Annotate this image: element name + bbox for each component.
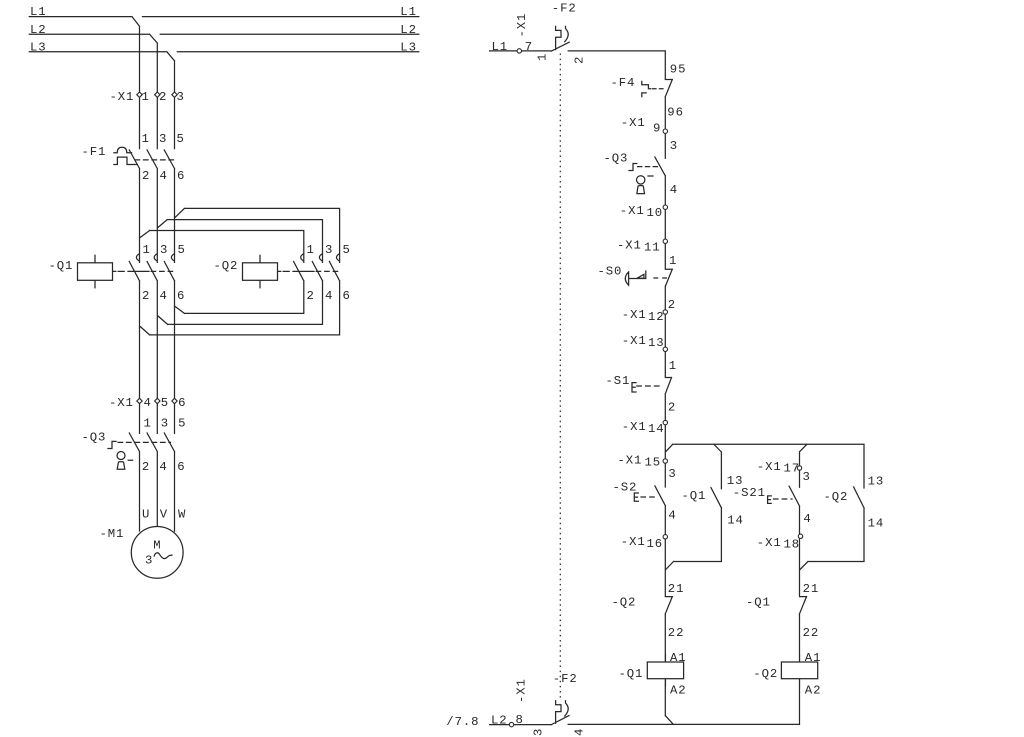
svg-text:3: 3 — [670, 139, 678, 153]
svg-text:1: 1 — [142, 90, 150, 104]
svg-text:-F1: -F1 — [82, 145, 107, 159]
svg-text:22: 22 — [803, 626, 820, 640]
svg-text:-Q1: -Q1 — [682, 489, 707, 503]
svg-text:5: 5 — [178, 416, 186, 430]
svg-text:95: 95 — [670, 63, 687, 77]
svg-text:2: 2 — [572, 56, 586, 64]
svg-text:-F2: -F2 — [552, 2, 577, 16]
svg-text:11: 11 — [644, 241, 661, 255]
svg-text:4: 4 — [144, 396, 152, 410]
svg-text:-X1: -X1 — [757, 536, 782, 550]
svg-text:5: 5 — [161, 396, 169, 410]
svg-text:-X1: -X1 — [514, 678, 528, 703]
svg-text:L1: L1 — [492, 40, 509, 54]
svg-text:2: 2 — [142, 169, 150, 183]
svg-text:L1: L1 — [400, 5, 417, 19]
svg-text:1: 1 — [669, 254, 677, 268]
svg-text:3: 3 — [803, 470, 811, 484]
svg-text:M: M — [153, 539, 161, 553]
svg-text:3: 3 — [160, 243, 168, 257]
svg-text:-Q1: -Q1 — [746, 595, 771, 609]
svg-text:14: 14 — [727, 514, 744, 528]
svg-text:-X1: -X1 — [757, 460, 782, 474]
svg-text:1: 1 — [142, 132, 150, 146]
svg-text:-Q1: -Q1 — [619, 667, 644, 681]
svg-text:17: 17 — [784, 462, 801, 476]
svg-text:1: 1 — [307, 243, 315, 257]
svg-text:6: 6 — [177, 460, 185, 474]
svg-text:-S0: -S0 — [598, 265, 623, 279]
svg-text:5: 5 — [178, 243, 186, 257]
svg-text:L2: L2 — [30, 23, 47, 37]
svg-text:-X1: -X1 — [515, 13, 529, 38]
svg-text:-X1: -X1 — [621, 535, 646, 549]
svg-text:-Q3: -Q3 — [82, 430, 107, 444]
svg-text:4: 4 — [803, 512, 811, 526]
svg-text:4: 4 — [160, 169, 168, 183]
svg-text:2: 2 — [142, 289, 150, 303]
svg-text:-Q2: -Q2 — [824, 490, 849, 504]
svg-text:1: 1 — [535, 53, 549, 61]
svg-text:-S2: -S2 — [613, 481, 638, 495]
svg-text:A1: A1 — [805, 651, 822, 665]
svg-text:-F2: -F2 — [553, 672, 578, 686]
svg-text:22: 22 — [668, 626, 685, 640]
svg-text:/7.8: /7.8 — [446, 715, 479, 729]
svg-text:3: 3 — [161, 416, 169, 430]
svg-text:V: V — [160, 508, 168, 522]
svg-text:2: 2 — [142, 460, 150, 474]
svg-text:15: 15 — [645, 456, 662, 470]
svg-text:2: 2 — [307, 289, 315, 303]
svg-text:-X1: -X1 — [622, 334, 647, 348]
svg-text:-X1: -X1 — [620, 204, 645, 218]
svg-text:3: 3 — [325, 243, 333, 257]
svg-text:13: 13 — [868, 475, 885, 489]
svg-text:2: 2 — [668, 298, 676, 312]
svg-text:10: 10 — [647, 206, 664, 220]
svg-text:A2: A2 — [805, 683, 822, 697]
svg-text:A1: A1 — [670, 651, 687, 665]
svg-text:-Q2: -Q2 — [612, 595, 637, 609]
svg-text:21: 21 — [803, 582, 820, 596]
svg-text:-X1: -X1 — [110, 90, 135, 104]
svg-text:L2: L2 — [491, 714, 508, 728]
svg-text:6: 6 — [177, 289, 185, 303]
svg-text:4: 4 — [670, 183, 678, 197]
svg-text:8: 8 — [516, 713, 524, 727]
svg-text:4: 4 — [325, 289, 333, 303]
svg-text:12: 12 — [648, 310, 665, 324]
svg-text:A2: A2 — [670, 683, 687, 697]
svg-text:3: 3 — [159, 132, 167, 146]
svg-text:-X1: -X1 — [622, 420, 647, 434]
svg-text:4: 4 — [668, 509, 676, 523]
svg-text:L1: L1 — [30, 5, 47, 19]
svg-text:3: 3 — [532, 728, 546, 736]
svg-text:14: 14 — [868, 516, 885, 530]
svg-text:L3: L3 — [400, 40, 417, 54]
svg-text:-X1: -X1 — [617, 239, 642, 253]
svg-text:-S1: -S1 — [606, 374, 631, 388]
svg-text:16: 16 — [647, 537, 664, 551]
svg-text:-Q1: -Q1 — [49, 259, 74, 273]
svg-text:18: 18 — [784, 538, 801, 552]
svg-text:-M1: -M1 — [100, 527, 125, 541]
svg-text:3: 3 — [145, 553, 153, 567]
svg-text:13: 13 — [648, 336, 665, 350]
svg-text:3: 3 — [668, 467, 676, 481]
svg-text:96: 96 — [667, 106, 684, 120]
svg-text:1: 1 — [144, 416, 152, 430]
svg-text:U: U — [142, 508, 150, 522]
svg-text:2: 2 — [668, 401, 676, 415]
svg-text:6: 6 — [178, 396, 186, 410]
svg-text:9: 9 — [653, 121, 661, 135]
svg-text:21: 21 — [668, 582, 685, 596]
svg-text:-X1: -X1 — [622, 308, 647, 322]
svg-text:3: 3 — [177, 90, 185, 104]
svg-text:7: 7 — [525, 40, 533, 54]
svg-text:1: 1 — [669, 359, 677, 373]
svg-text:-Q3: -Q3 — [604, 151, 629, 165]
svg-text:1: 1 — [143, 243, 151, 257]
svg-text:4: 4 — [573, 728, 587, 736]
svg-text:2: 2 — [159, 90, 167, 104]
svg-text:L2: L2 — [400, 23, 417, 37]
svg-text:-X1: -X1 — [621, 116, 646, 130]
svg-text:4: 4 — [160, 289, 168, 303]
svg-text:5: 5 — [177, 132, 185, 146]
svg-text:6: 6 — [343, 289, 351, 303]
svg-text:-X1: -X1 — [109, 396, 134, 410]
svg-text:W: W — [178, 508, 186, 522]
svg-text:-S21: -S21 — [733, 486, 766, 500]
svg-text:14: 14 — [648, 422, 665, 436]
svg-text:4: 4 — [159, 460, 167, 474]
svg-text:-Q2: -Q2 — [753, 667, 778, 681]
svg-text:-X1: -X1 — [618, 454, 643, 468]
svg-text:6: 6 — [177, 169, 185, 183]
svg-text:-F4: -F4 — [611, 76, 636, 90]
svg-text:5: 5 — [343, 243, 351, 257]
svg-text:-Q2: -Q2 — [214, 259, 239, 273]
svg-text:L3: L3 — [30, 40, 47, 54]
